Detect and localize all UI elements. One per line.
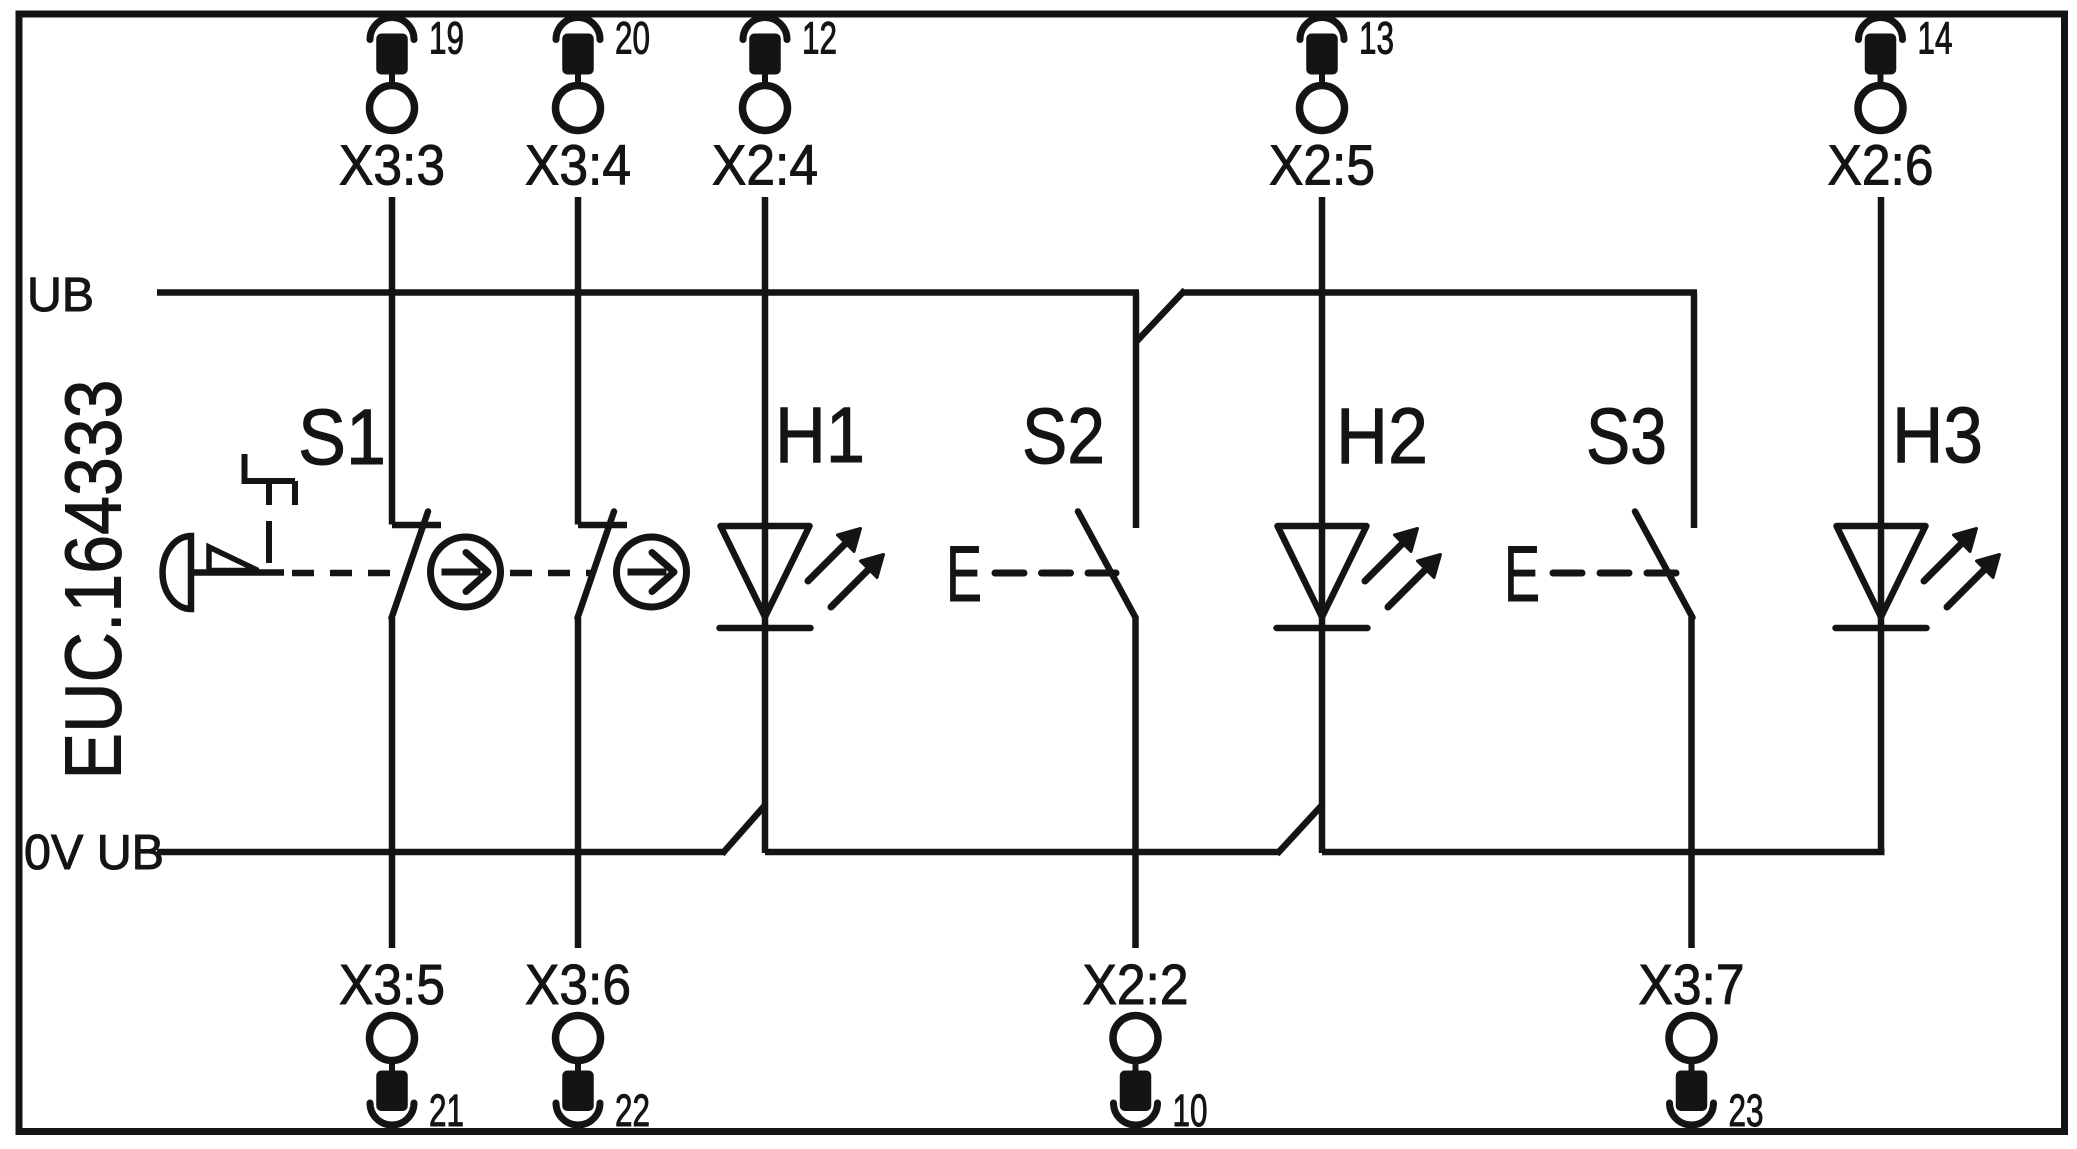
svg-text:S2: S2 [1022, 391, 1105, 480]
svg-text:23: 23 [1729, 1085, 1764, 1136]
svg-text:X2:2: X2:2 [1083, 953, 1189, 1017]
svg-text:20: 20 [615, 13, 650, 64]
svg-text:13: 13 [1359, 13, 1394, 64]
svg-text:10: 10 [1173, 1085, 1208, 1136]
svg-text:14: 14 [1918, 13, 1953, 64]
svg-text:X3:6: X3:6 [525, 953, 631, 1017]
svg-text:E: E [1504, 529, 1540, 618]
svg-text:X2:6: X2:6 [1828, 134, 1934, 198]
svg-text:X3:3: X3:3 [339, 134, 445, 198]
svg-text:21: 21 [429, 1085, 464, 1136]
svg-text:E: E [946, 529, 982, 618]
svg-text:X3:4: X3:4 [525, 134, 631, 198]
svg-text:X2:5: X2:5 [1269, 134, 1375, 198]
svg-text:X2:4: X2:4 [712, 134, 818, 198]
svg-text:X3:5: X3:5 [339, 953, 445, 1017]
svg-text:H2: H2 [1336, 391, 1428, 480]
svg-text:S1: S1 [298, 392, 386, 481]
svg-text:UB: UB [27, 268, 94, 322]
svg-text:0V UB: 0V UB [24, 826, 164, 880]
svg-text:22: 22 [615, 1085, 650, 1136]
svg-text:X3:7: X3:7 [1639, 953, 1745, 1017]
svg-text:H3: H3 [1892, 390, 1983, 479]
svg-text:EUC.164333: EUC.164333 [49, 380, 138, 780]
svg-text:S3: S3 [1586, 391, 1667, 480]
svg-text:19: 19 [429, 13, 464, 64]
svg-text:12: 12 [802, 13, 837, 64]
svg-text:H1: H1 [775, 390, 865, 479]
